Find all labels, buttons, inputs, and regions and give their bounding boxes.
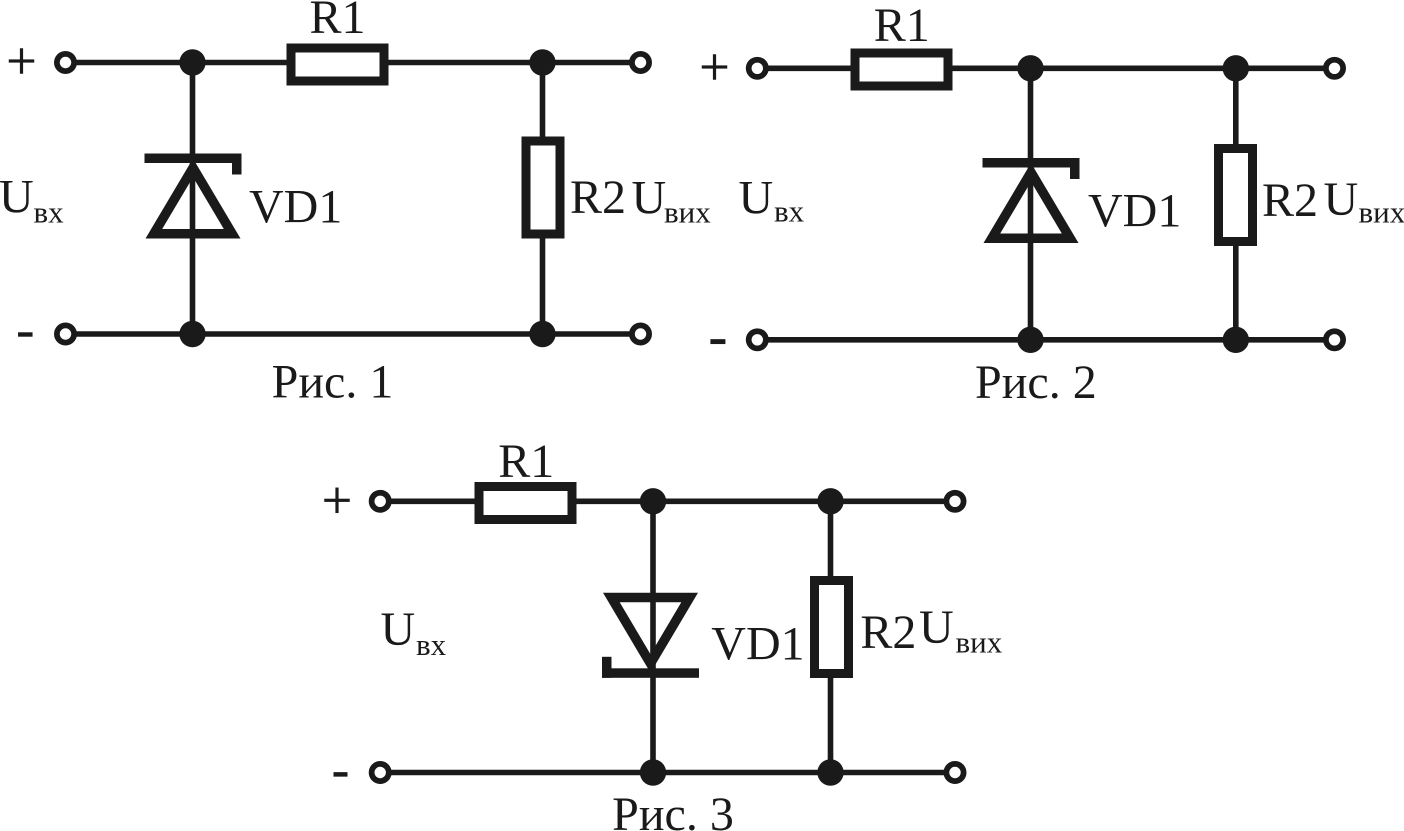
terminal: fig.2 input - [749,331,766,348]
svg-text:VD1: VD1 [249,181,342,234]
zener diode VD1 (fig.3, inverted) [602,593,699,678]
node: fig.1 top-right junction [529,49,555,75]
polarity - (fig.2 input) [710,339,725,344]
svg-text:вих: вих [1359,195,1404,230]
svg-text:R1: R1 [498,435,554,488]
node: fig.2 top-right junction [1223,55,1249,81]
polarity + (fig.1 input) [9,48,35,74]
node: fig.1 bottom-right junction [529,321,555,347]
node: fig.1 top-left junction [179,49,205,75]
wire: fig.1 top rail [66,60,641,66]
terminal: fig.3 input + [372,493,389,510]
svg-text:VD1: VD1 [1088,185,1181,238]
node: fig.3 bottom-right junction [817,759,843,785]
wire: fig.3 VD1 branch [650,501,656,772]
resistor R1 (fig.3) [475,482,577,524]
node: fig.3 bottom-left junction [640,759,666,785]
resistor R2 (fig.2) [1214,144,1257,246]
svg-text:U: U [632,172,667,225]
label Uvyx (fig.2) [1324,173,1404,230]
wire: fig.2 bottom rail [757,337,1334,343]
svg-text:U: U [381,603,416,656]
label Uvx (fig.2) [739,172,805,229]
resistor R2 (fig.3) [810,576,853,678]
resistor R1 (fig.1) [287,44,389,86]
node: fig.2 bottom-left junction [1017,327,1043,353]
wire: fig.1 VD1 branch [190,63,196,335]
svg-text:R2: R2 [570,171,626,224]
terminal: fig.1 input - [57,325,74,342]
svg-text:U: U [0,171,34,224]
resistor R1 (fig.2) [851,49,953,91]
wire: fig.3 top rail [380,498,955,504]
svg-text:U: U [739,172,774,225]
svg-text:Рис. 1: Рис. 1 [272,355,394,408]
svg-text:Рис. 2: Рис. 2 [975,356,1097,409]
terminal: fig.3 output - [946,764,963,781]
label Uvyx (fig.3) [919,601,1003,660]
svg-text:вх: вх [416,627,447,662]
node: fig.1 bottom-left junction [179,321,205,347]
wire: fig.2 top rail [757,66,1334,72]
svg-text:VD1: VD1 [711,618,804,671]
node: fig.2 bottom-right junction [1223,327,1249,353]
svg-text:Рис. 3: Рис. 3 [612,788,734,831]
svg-text:U: U [919,601,954,654]
svg-text:R1: R1 [309,0,365,44]
terminal: fig.1 output + [632,54,649,71]
terminal: fig.2 input + [749,60,766,77]
label Uvx (fig.1) [0,171,64,230]
wire: fig.1 bottom rail [66,331,641,337]
label Uvyx (fig.1) [632,172,712,230]
svg-text:вх: вх [774,194,805,229]
zener diode VD1 (fig.1) [145,154,242,239]
polarity - (fig.1 input) [18,332,33,336]
svg-text:R2: R2 [1262,174,1318,227]
wire: fig.3 R2 branch [828,501,834,772]
svg-text:вих: вих [956,625,1003,660]
terminal: fig.3 output + [946,493,963,510]
zener diode VD1 (fig.2) [983,158,1080,243]
node: fig.2 top-left junction [1017,55,1043,81]
polarity + (fig.2 input) [702,54,728,80]
svg-text:вх: вх [34,195,65,230]
terminal: fig.1 output - [632,325,649,342]
svg-text:вих: вих [664,195,711,230]
terminal: fig.1 input + [57,54,74,71]
wire: fig.3 bottom rail [380,770,955,776]
terminal: fig.2 output - [1326,331,1343,348]
node: fig.3 top-right junction [817,488,843,514]
wire: fig.1 R2 branch [540,63,546,335]
label Uvx (fig.3) [381,603,447,662]
wire: fig.2 R2 branch [1233,68,1239,340]
wire: fig.2 VD1 branch [1028,68,1034,340]
polarity + (fig.3 input) [324,488,350,514]
polarity - (fig.3 input) [334,772,348,777]
svg-text:R2: R2 [860,606,916,659]
terminal: fig.3 input - [372,764,389,781]
node: fig.3 top-left junction [640,488,666,514]
svg-text:U: U [1324,173,1359,226]
svg-text:R1: R1 [874,0,930,52]
resistor R2 (fig.1) [522,137,565,239]
terminal: fig.2 output + [1326,60,1343,77]
